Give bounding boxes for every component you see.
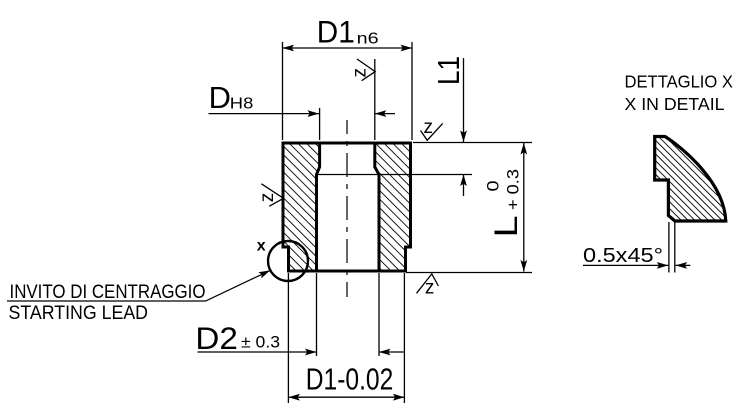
dimension D1 line bbox=[283, 47, 413, 49]
arrow D1-0.02 left bbox=[288, 394, 300, 401]
extension line D2 right bbox=[378, 273, 380, 356]
top face extension line right bbox=[413, 142, 532, 144]
svg-text:z: z bbox=[350, 68, 371, 78]
extension line D1 right bbox=[411, 42, 413, 140]
dimension D1-0.02 line bbox=[288, 396, 404, 398]
svg-text:D: D bbox=[209, 81, 231, 115]
svg-text:z: z bbox=[424, 117, 434, 138]
detail hatch bbox=[655, 137, 726, 222]
arrow L down bbox=[520, 260, 527, 272]
bore left wall bbox=[317, 143, 320, 271]
svg-text:± 0.3: ± 0.3 bbox=[241, 334, 280, 352]
dimension L1 upper segment bbox=[463, 58, 465, 142]
dimension DH8 right tail bbox=[375, 113, 395, 115]
arrow 0.5x45 pointing left bbox=[676, 262, 688, 269]
svg-text:D1-0.02: D1-0.02 bbox=[306, 362, 394, 397]
detail extension line left bbox=[668, 222, 670, 273]
svg-text:z: z bbox=[257, 193, 278, 203]
svg-text:DETTAGLIO X: DETTAGLIO X bbox=[625, 72, 734, 92]
arrow L1 up bbox=[460, 175, 467, 187]
svg-text:z: z bbox=[425, 277, 435, 298]
arrow DH8 pointing left bbox=[375, 110, 387, 117]
svg-text:D1: D1 bbox=[317, 14, 355, 50]
surface symbol z on bore extension bbox=[357, 59, 375, 81]
bore right wall bbox=[375, 143, 379, 271]
leader arrowhead bbox=[258, 270, 270, 278]
svg-text:INVITO DI CENTRAGGIO: INVITO DI CENTRAGGIO bbox=[10, 281, 206, 303]
bore step edge / L1 extension line bbox=[317, 174, 473, 176]
svg-text:X IN DETAIL: X IN DETAIL bbox=[625, 94, 725, 114]
extension line D1-0.02 left bbox=[287, 273, 289, 403]
surface symbol z on bottom face bbox=[417, 274, 439, 293]
detail circle X bbox=[268, 241, 308, 281]
dimension 0.5x45 line bbox=[583, 264, 668, 266]
detail extension line right bbox=[674, 222, 676, 273]
dimension D2 right tail bbox=[379, 351, 404, 353]
extension line DH8 left bbox=[319, 108, 321, 140]
arrow L1 down bbox=[460, 131, 467, 143]
dimension L line bbox=[523, 143, 525, 272]
arrow D1 right bbox=[401, 45, 413, 52]
detail outline bbox=[655, 137, 726, 222]
hatch right wall bbox=[375, 143, 411, 271]
arrow DH8 pointing right bbox=[308, 110, 320, 117]
svg-text:0.5x45°: 0.5x45° bbox=[583, 245, 663, 267]
extension line D1 left bbox=[282, 42, 284, 140]
arrow D2 pointing left bbox=[379, 349, 391, 356]
dimension D2 line bbox=[198, 351, 317, 353]
dimension L1 lower segment bbox=[463, 175, 465, 197]
hatch left wall bbox=[283, 143, 320, 271]
centerline bbox=[346, 120, 348, 297]
arrow D1 left bbox=[283, 45, 295, 52]
arrow D1-0.02 right bbox=[393, 394, 405, 401]
svg-text:n6: n6 bbox=[357, 31, 379, 48]
svg-text:D2: D2 bbox=[195, 320, 238, 356]
arrow 0.5x45 pointing right bbox=[657, 262, 669, 269]
arrow D2 pointing right bbox=[305, 349, 317, 356]
arrow L up bbox=[520, 143, 527, 155]
body outer profile bbox=[283, 143, 411, 271]
extension line DH8 right bbox=[374, 59, 376, 140]
dimension 0.5x45 right tail bbox=[676, 264, 691, 266]
bottom face extension line right bbox=[406, 272, 532, 274]
surface symbol z on left wall bbox=[261, 184, 283, 206]
svg-text:0: 0 bbox=[484, 181, 503, 192]
dimension DH8 line bbox=[209, 113, 320, 115]
svg-text:L1: L1 bbox=[431, 56, 466, 85]
svg-text:H8: H8 bbox=[230, 96, 254, 113]
svg-text:x: x bbox=[257, 238, 266, 255]
leader line INVITO bbox=[7, 270, 270, 301]
surface symbol z on top face bbox=[421, 123, 443, 140]
extension line D1-0.02 right bbox=[403, 273, 405, 403]
extension line D2 left bbox=[316, 273, 318, 356]
svg-text:STARTING LEAD: STARTING LEAD bbox=[9, 302, 149, 324]
svg-text:+ 0.3: + 0.3 bbox=[504, 169, 523, 210]
svg-text:L: L bbox=[488, 216, 524, 238]
